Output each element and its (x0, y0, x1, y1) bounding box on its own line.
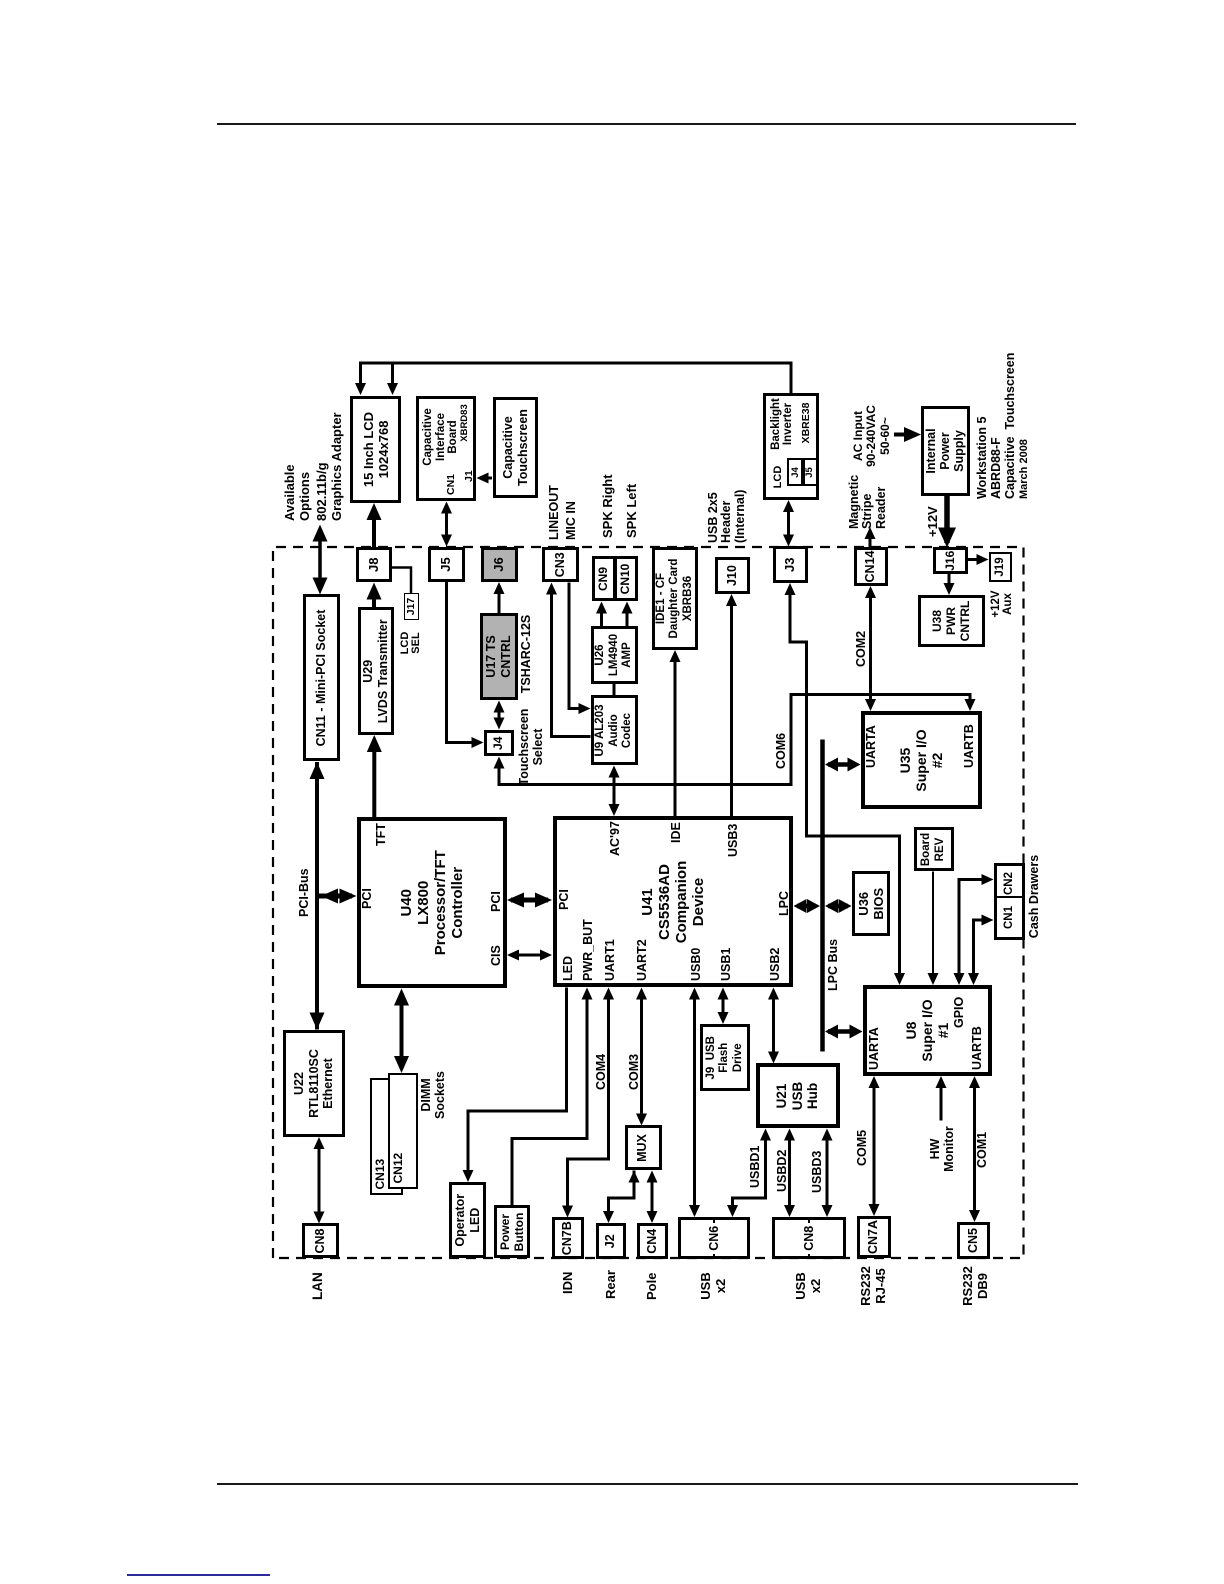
wire U26 to CN10 (622, 602, 633, 627)
wire U9 to U26 link (613, 684, 616, 696)
wire LPC bus line (820, 740, 825, 1052)
connector J10 (715, 557, 750, 594)
connector CN3 (542, 547, 579, 583)
wire COM2 CN14 to U35 UARTA (865, 586, 876, 711)
power button (494, 1206, 530, 1259)
label AC input (852, 402, 893, 470)
U8 pin UARTB (970, 1026, 984, 1070)
label +12V Aux (990, 586, 1015, 622)
label Rear (604, 1270, 618, 1299)
wire USBD3 U21 to CN8 (822, 1129, 833, 1218)
label USB 2x5 header (707, 490, 748, 543)
connector J16 (933, 548, 968, 575)
connector CN7A (857, 1216, 892, 1258)
wire CN8 to U22 (314, 1137, 325, 1224)
wire J5 to J4 (447, 582, 484, 748)
wire LPC U41 to bus (794, 899, 821, 913)
label DIMM sockets (420, 1069, 447, 1121)
BIOS U36 (852, 872, 890, 937)
connector CN8 LAN (302, 1224, 339, 1259)
label USB x2 second (793, 1264, 823, 1308)
wire LCD top rail (355, 363, 791, 395)
mini-PCI socket CN11 (303, 595, 340, 762)
wire MUX to J2 (603, 1171, 640, 1224)
LCD panel (350, 396, 401, 503)
wire GPIO net U8 to CN2 (954, 874, 994, 985)
U41 pin USB2 (768, 948, 782, 981)
U41 pin PWR_BUT (581, 919, 595, 981)
dashed board boundary (273, 547, 1024, 1258)
label COM1 (976, 1132, 990, 1168)
U41 pin UART2 (635, 939, 649, 981)
super IO U8 (863, 985, 993, 1076)
wire LCD rail stub 2 (387, 363, 398, 395)
U41 pin USB3 (726, 824, 740, 857)
U41 pin IDE (669, 822, 683, 843)
label TSHARC-12S (520, 614, 534, 694)
wire Backlight Inverter to J3 (783, 500, 794, 547)
connector CN7B (552, 1217, 584, 1260)
label LCD SEL (400, 627, 422, 659)
label COM5 (856, 1130, 870, 1166)
connector CN9 (592, 557, 616, 602)
wire TFT U40 to U29 (367, 735, 382, 817)
label USBD3 (811, 1151, 825, 1193)
super IO U35 (861, 712, 982, 810)
wire J16 to J19 (968, 554, 989, 565)
wire USB2 U41 to U21 (768, 988, 779, 1064)
wire HW Monitor to U8 (936, 1076, 947, 1121)
wire PCI U40 to U41 (507, 893, 552, 908)
wire PCI-Bus CN11 to U22 (310, 762, 325, 1030)
wire +12V PSU to J16 (938, 496, 956, 548)
connector CN14 (854, 547, 888, 586)
wire UART1 COM4 net U41 to CN7B (562, 988, 614, 1218)
IDE daughter card connector IDE1 (652, 547, 698, 650)
U41 pin AC97 (608, 821, 622, 856)
connector J17 (404, 593, 419, 620)
label USB x2 first (698, 1264, 728, 1308)
cash drawer connectors CN1 CN2 (994, 863, 1025, 940)
label PCI-Bus (298, 868, 312, 917)
wire LPC bus to U36 (825, 899, 852, 913)
wire touchscreen select net J4 to U35 UARTB (494, 695, 976, 785)
U8 pin UARTA (867, 1027, 881, 1070)
DIMM socket CN13 (370, 1078, 403, 1196)
U8 pin GPIO (952, 997, 966, 1028)
wire PWR_BUT net Power Button to U41 (512, 988, 593, 1207)
wire U26 to CN9 (596, 602, 607, 627)
wire COM1 CN5 to U8 (969, 1076, 980, 1222)
U40 pin TFT (374, 823, 388, 846)
label SPK Left (625, 484, 639, 538)
touchscreen controller U17 (480, 613, 518, 700)
capacitive touchscreen (493, 397, 538, 498)
wire COM6 net J3 to U8 (785, 583, 906, 985)
label RS232 RJ-45 (858, 1262, 888, 1310)
wire J16 to U38 (944, 574, 955, 595)
wire DIMM to U40 (394, 989, 409, 1074)
label cash drawers (1028, 854, 1042, 939)
label LPC Bus (827, 939, 841, 991)
connector CN8 USB (772, 1217, 846, 1260)
capacitive interface board (416, 396, 476, 501)
LCD backlight inverter (763, 393, 819, 500)
label +12V (926, 506, 940, 537)
label COM6 (775, 733, 789, 769)
label COM4 (595, 1054, 609, 1090)
USB flash drive J9 (700, 1024, 750, 1092)
wire USBD2 U21 to CN8 (784, 1129, 795, 1218)
wire LPC bus to U35 (825, 758, 861, 772)
label LINEOUT MIC IN (546, 485, 579, 540)
label HW Monitor (929, 1124, 956, 1174)
connector J3 (773, 547, 809, 584)
wire USB3 U41 to J10 (726, 594, 737, 817)
wire CIS U40 to U41 (507, 950, 552, 961)
U41 pin LED (561, 956, 575, 981)
wire CN3 MIC IN to U9 (569, 583, 591, 715)
wire J8 to LCD (367, 503, 382, 551)
wire Capacitive Touchscreen to J1 (477, 473, 493, 484)
connector CN6 USB (678, 1217, 751, 1260)
wire UART2 COM3 net U41 to MUX (636, 988, 647, 1126)
bottom rule (217, 1483, 1078, 1485)
title workstation 5 (975, 353, 1017, 499)
connector CN5 (957, 1222, 990, 1259)
U41 pin USB0 (689, 948, 703, 981)
wire MUX to CN4 (647, 1171, 658, 1224)
top rule (217, 123, 1076, 125)
wire LED net U41 to Operator LED (463, 988, 567, 1183)
connector J6 (481, 547, 518, 582)
operator LED (449, 1182, 486, 1259)
wire 802.11 double arrow (313, 525, 328, 595)
U35 pin UARTA (864, 725, 878, 768)
label Pole (645, 1273, 659, 1300)
label magnetic stripe reader (848, 475, 889, 529)
USB hub U21 (756, 1064, 840, 1129)
label RS232 DB9 (960, 1262, 990, 1310)
U41 pin LPC (777, 891, 791, 916)
U35 pin UARTB (962, 724, 976, 768)
MUX (625, 1126, 662, 1171)
companion U41 CS5536AD (553, 817, 794, 988)
label touchscreen select (518, 701, 545, 793)
audio codec U9 (591, 696, 639, 766)
label COM3 (628, 1054, 642, 1090)
footer blue line (127, 1574, 270, 1576)
LVDS transmitter U29 (358, 608, 394, 736)
label SPK Right (601, 474, 615, 538)
U40 pin CIS (489, 945, 503, 966)
wire USB1 U41 to J9 (718, 988, 729, 1025)
wire Board REV to U8 (928, 872, 939, 986)
label USBD1 (749, 1146, 763, 1188)
label IDN (561, 1272, 575, 1294)
amplifier U26 (591, 626, 638, 684)
DIMM socket CN12 (388, 1073, 419, 1190)
connector J19 (989, 552, 1013, 582)
wire AC input arrow (894, 427, 921, 442)
wire PCI stub to U40 (319, 889, 357, 904)
board revision strap (914, 828, 955, 872)
label USBD2 (776, 1150, 790, 1192)
ethernet U22 (283, 1030, 345, 1137)
label COM2 (855, 631, 869, 667)
wire J5 to Capacitive Interface Board (441, 502, 452, 547)
label 802.11 graphics adapter (314, 412, 344, 521)
U41 pin USB1 (719, 948, 733, 981)
connector J5 (428, 547, 465, 582)
connector J4 (484, 730, 515, 757)
wire COM5 CN7A to U8 (869, 1076, 880, 1216)
wire IDE U41 to IDE1 (670, 650, 681, 817)
U41 pin UART1 (603, 939, 617, 981)
wire LPC bus to U8 (825, 1025, 863, 1039)
connector J2 (596, 1223, 626, 1260)
wire U17 to J6 (494, 582, 505, 613)
power control U38 (918, 595, 985, 647)
wire USBD1 CN6 to U21 (727, 1129, 771, 1218)
connector CN4 (637, 1223, 668, 1260)
wire CN14 to Magnetic Stripe Reader (865, 527, 876, 548)
wire J8 to J17 (392, 568, 412, 594)
wire GPIO net U8 to CN1 (968, 915, 994, 986)
connector CN10 (614, 557, 638, 602)
processor U40 LX800 (357, 817, 507, 989)
label available options (282, 464, 312, 521)
wire USB0 U41 to CN6 (689, 988, 700, 1218)
U40 pin PCI top (360, 888, 374, 909)
wire J4 to U17 (494, 701, 505, 730)
wire U29 to J8 (367, 583, 382, 608)
internal power supply (921, 406, 970, 496)
U41 pin PCI (557, 889, 571, 910)
connector J8 (356, 547, 392, 583)
title date March 2008 (1018, 439, 1030, 499)
wire U9 LINEOUT to CN3 (546, 583, 591, 737)
U40 pin PCI bottom (489, 891, 503, 912)
wire AC97 U41 to U9 (609, 766, 620, 817)
label LAN (311, 1272, 326, 1300)
